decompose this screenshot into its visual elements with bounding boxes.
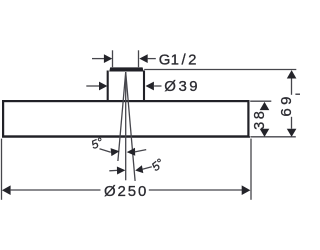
- dimension 38 value label: [252, 109, 268, 130]
- dimension 38 top extension line: [250, 100, 271, 102]
- diameter 39 left arrow: [99, 82, 107, 91]
- right 5-degree spray line: [126, 72, 135, 181]
- upper 5-degree right arrow: [127, 148, 136, 156]
- dimension 38/69 bottom extension line: [250, 136, 295, 138]
- left 5-degree spray line: [118, 72, 126, 161]
- stray dash at right edge: [295, 93, 300, 95]
- dimension 69 upper line segment: [291, 79, 293, 95]
- svg-text:5°: 5°: [149, 156, 167, 174]
- dimension 38 top arrow: [260, 102, 270, 110]
- dimension 69 bottom arrow: [287, 129, 297, 137]
- diameter 250 value label: [104, 183, 146, 200]
- diameter 39 right arrow: [146, 82, 154, 91]
- lower 5-degree label leader: [142, 167, 151, 170]
- diameter 39 right leader line: [154, 85, 161, 87]
- dimension 69 top extension line: [144, 69, 296, 71]
- svg-text:Ø39: Ø39: [164, 78, 197, 95]
- svg-text:G: G: [159, 52, 171, 69]
- G1/2 right arrow: [139, 54, 147, 63]
- svg-text:38: 38: [252, 109, 268, 130]
- diameter 250 dimension line left segment: [10, 189, 101, 191]
- connector top cap: [109, 67, 143, 71]
- svg-text:69: 69: [278, 93, 295, 117]
- dimension 69 top arrow: [287, 70, 297, 78]
- svg-text:Ø250: Ø250: [104, 183, 146, 200]
- upper 5-degree left arrow: [111, 148, 120, 156]
- connector block left edge: [107, 71, 109, 101]
- lower 5-degree value label: [149, 156, 167, 174]
- svg-text:1/2: 1/2: [171, 52, 197, 69]
- lower 5-degree left tail line: [109, 169, 117, 171]
- center axis line: [125, 72, 127, 180]
- connector block right edge: [143, 71, 145, 101]
- G1/2 left extension line: [112, 50, 114, 67]
- G1/2 value label: [159, 52, 197, 69]
- diameter 250 right arrow: [242, 185, 251, 195]
- diameter 39 value label: [164, 78, 197, 95]
- upper 5-degree value label: [89, 135, 105, 152]
- G1/2 left leader line: [92, 58, 104, 60]
- diameter 39 left leader line: [86, 85, 99, 87]
- dimension 69 value label: [278, 93, 295, 117]
- upper 5-degree right tail line: [135, 150, 146, 152]
- shower head body outline: [2, 101, 250, 137]
- G1/2 left arrow: [104, 54, 112, 63]
- diameter 250 dimension line right segment: [149, 189, 242, 191]
- lower 5-degree left arrow: [117, 167, 126, 175]
- upper 5-degree label leader: [100, 149, 111, 152]
- G1/2 right leader line: [148, 58, 156, 60]
- dimension 69 lower line segment: [291, 117, 293, 129]
- diameter 250 left extension line: [1, 139, 3, 200]
- diameter 250 right extension line: [250, 139, 252, 200]
- G1/2 right extension line: [138, 50, 140, 67]
- dimension 38 bottom arrow: [260, 129, 270, 137]
- lower 5-degree right arrow: [135, 165, 143, 173]
- diameter 250 left arrow: [2, 185, 11, 195]
